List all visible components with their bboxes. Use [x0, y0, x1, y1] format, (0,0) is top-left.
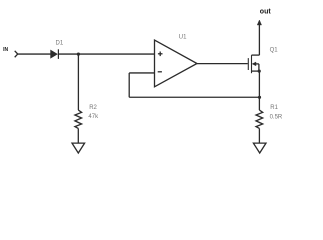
svg-text:R2: R2 [89, 105, 97, 111]
wire feedback bottom horizontal [129, 96, 259, 98]
resistor R2 [75, 110, 82, 128]
wire op-amp output to Q1 gate [197, 63, 248, 65]
svg-text:Q1: Q1 [270, 48, 279, 54]
wire D1 cathode to op-amp + input [58, 53, 154, 55]
junction dot node B [258, 96, 261, 99]
resistor R1 [256, 110, 263, 128]
wire node A down to R2 [77, 54, 79, 110]
svg-text:R1: R1 [270, 105, 278, 111]
ground (left) [72, 143, 85, 153]
ground (right) [253, 143, 266, 153]
op-amp U1 [155, 40, 198, 87]
arrow out [257, 20, 261, 25]
svg-text:U1: U1 [179, 34, 187, 40]
wire IN to D1 anode [18, 53, 51, 55]
wire R2 to ground [77, 128, 79, 143]
wire feedback left vertical [128, 73, 130, 97]
wire Q1 drain up to out [258, 21, 260, 55]
svg-text:0.5R: 0.5R [270, 114, 283, 120]
junction dot node A [77, 53, 80, 56]
wire op-amp inverting input [129, 72, 154, 74]
port IN chevron [15, 51, 18, 57]
svg-text:out: out [260, 8, 272, 15]
wire R1 to ground [258, 128, 260, 143]
svg-text:47k: 47k [88, 114, 99, 120]
svg-text:IN: IN [3, 47, 8, 53]
svg-text:D1: D1 [56, 40, 64, 46]
wire Q1 source down to R1 [258, 71, 260, 110]
transistor Q1 [248, 55, 261, 73]
diode D1 [51, 49, 59, 59]
